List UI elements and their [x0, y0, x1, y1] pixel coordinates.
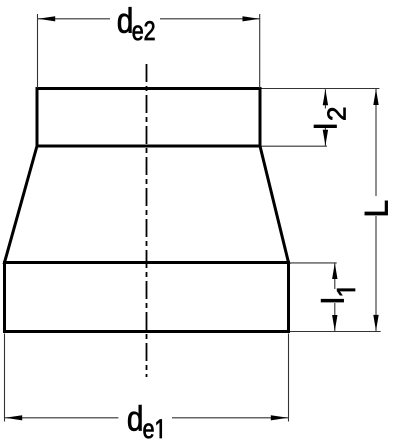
arrow l2 up: [323, 89, 328, 105]
extension line left of de1: [4, 334, 6, 422]
dimension line L lower part: [375, 216, 377, 331]
arrow l1 up: [332, 263, 337, 279]
dimension line L upper part: [375, 89, 377, 196]
arrow L down: [373, 315, 378, 331]
extension line top of l1: [290, 262, 337, 264]
label de2: [118, 7, 154, 40]
dimension line de1 right part: [172, 417, 288, 419]
arrow de2 left: [38, 16, 55, 21]
dimension line de2 left part: [38, 18, 110, 20]
dimension line l2 lower part: [324, 128, 326, 146]
extension line right of de2: [259, 14, 261, 88]
extension line bottom of l1: [290, 331, 381, 333]
arrow L up: [373, 89, 378, 105]
dimension line l1 upper part: [334, 263, 336, 289]
centerline: [146, 64, 148, 377]
dimension line de1 left part: [5, 417, 118, 419]
label L: [365, 201, 388, 215]
extension line bottom of l2: [262, 145, 328, 147]
arrow l1 down: [332, 315, 337, 331]
dimension line de2 right part: [160, 18, 260, 20]
reducer cone body: [5, 146, 289, 263]
label l2: [314, 108, 345, 128]
dimension line l1 lower part: [334, 303, 336, 331]
extension line right of de1: [288, 334, 290, 422]
reducer bottom collar outline: [5, 263, 289, 332]
dimension line l2 upper part: [324, 89, 326, 108]
arrow de1 left: [5, 415, 22, 420]
arrow l2 down: [323, 130, 328, 146]
arrow de2 right: [243, 16, 260, 21]
label l1: [321, 289, 355, 302]
extension line top of l2: [262, 88, 380, 90]
extension line left of de2: [37, 14, 39, 88]
reducer top collar outline: [37, 89, 260, 147]
arrow de1 right: [271, 415, 288, 420]
label de1: [128, 405, 162, 438]
